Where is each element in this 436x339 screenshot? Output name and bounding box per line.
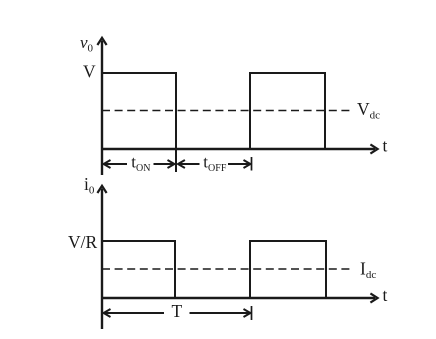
top plot v0: x-axis (t)	[102, 148, 375, 150]
svg-text:v0: v0	[80, 33, 94, 55]
top plot v0: y-axis arrowhead	[97, 38, 106, 45]
bottom plot: current pulse 1	[102, 241, 175, 298]
bottom plot i0: x-axis (t)	[102, 297, 375, 299]
svg-text:tOFF: tOFF	[203, 153, 227, 175]
top plot v0: y-axis	[101, 41, 103, 176]
bottom plot: dashed average level Idc	[102, 268, 353, 270]
bottom plot i0: y-axis	[101, 189, 103, 330]
svg-text:T: T	[172, 301, 183, 321]
dimension arrow T left	[104, 309, 111, 317]
top plot v0: x-axis arrowhead	[370, 144, 377, 153]
top plot: voltage pulse 2	[250, 73, 325, 149]
dimension arrow T right	[190, 312, 251, 314]
top plot: voltage pulse 1 (ON from 0 to tON)	[102, 73, 176, 172]
bottom plot i0: x-axis arrowhead	[370, 293, 377, 302]
top plot: dimension tick at t = T	[251, 157, 253, 171]
top plot: dashed average level Vdc	[102, 110, 351, 112]
bottom plot i0: y-axis arrowhead	[97, 186, 106, 193]
dimension arrow tON right	[154, 163, 175, 165]
svg-text:V/R: V/R	[68, 232, 98, 252]
dimension arrow tON left	[104, 160, 111, 168]
svg-text:Vdc: Vdc	[357, 99, 380, 122]
svg-text:V: V	[83, 62, 96, 82]
dimension arrow tOFF right	[228, 163, 250, 165]
svg-text:Idc: Idc	[360, 259, 376, 282]
svg-text:tON: tON	[131, 153, 150, 175]
dimension arrow tOFF left	[178, 160, 185, 168]
svg-text:t: t	[383, 285, 388, 305]
svg-text:t: t	[383, 136, 388, 156]
bottom plot: dimension tick at t = T	[251, 306, 253, 320]
svg-text:i0: i0	[84, 174, 95, 197]
bottom plot: current pulse 2	[250, 241, 326, 298]
